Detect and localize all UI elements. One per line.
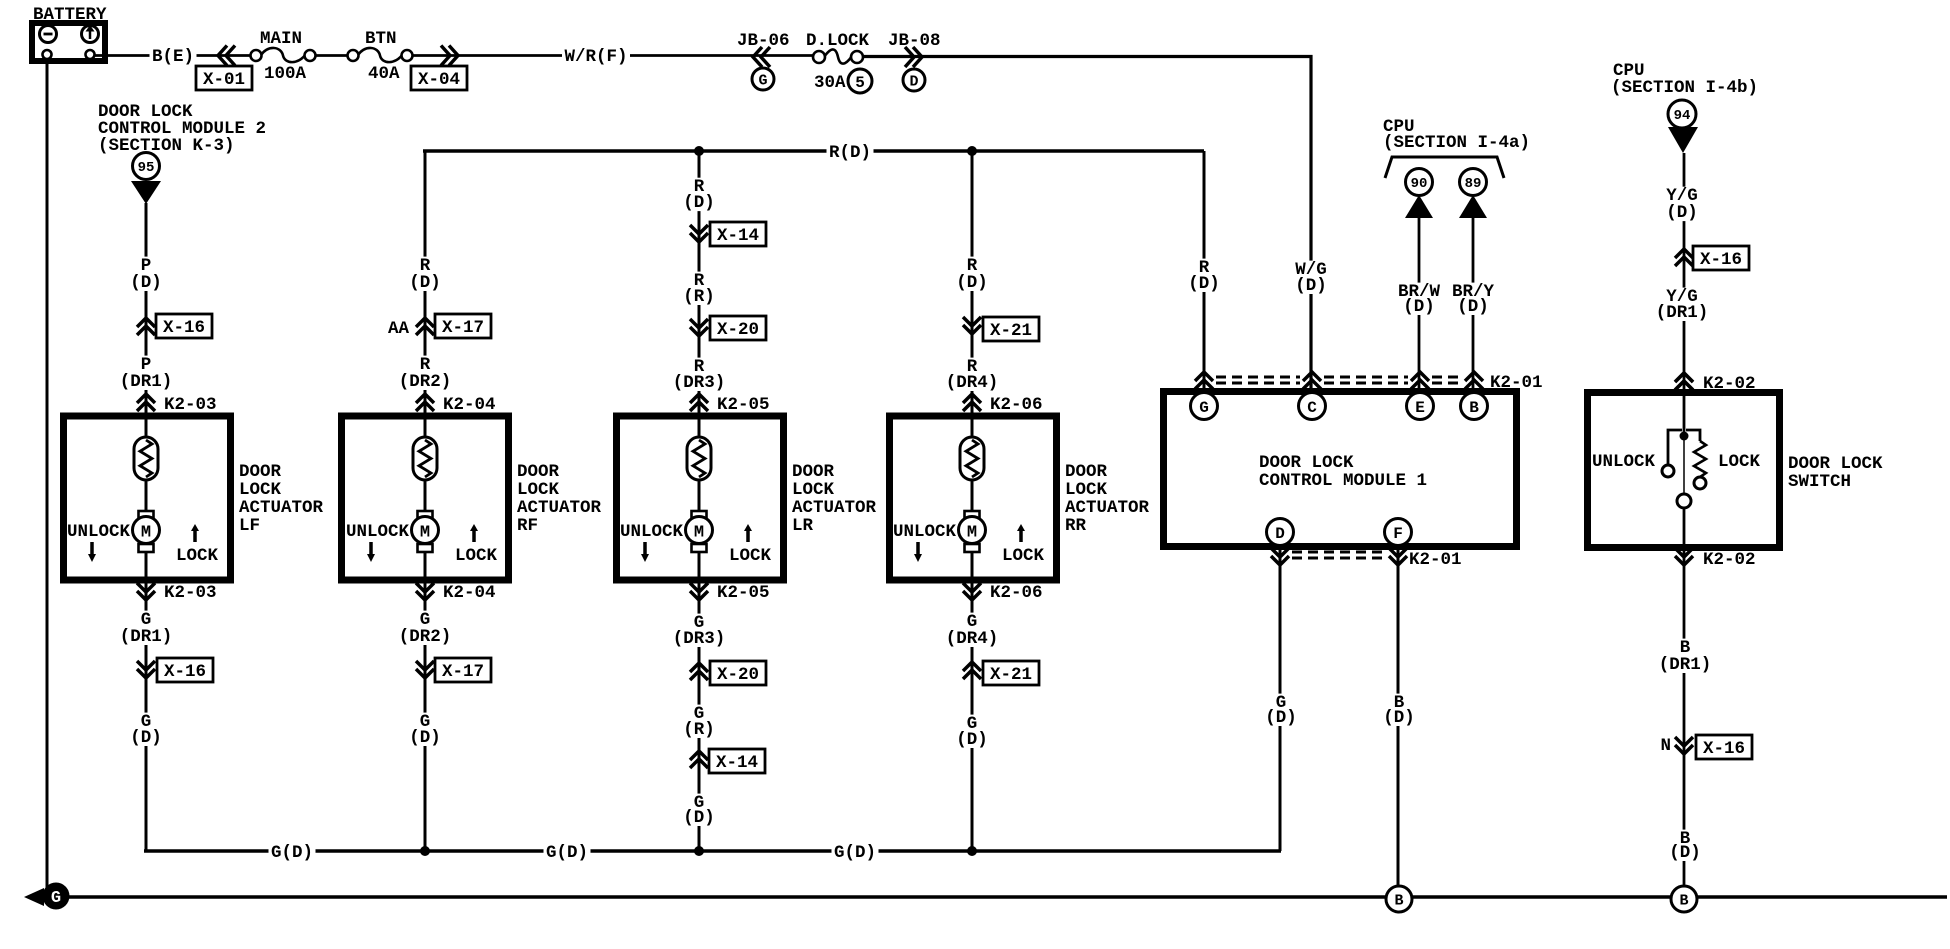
svg-text:K2-04: K2-04 <box>443 395 496 415</box>
svg-text:ACTUATOR: ACTUATOR <box>239 498 324 518</box>
svg-text:JB-06: JB-06 <box>737 31 790 51</box>
svg-text:G(D): G(D) <box>834 843 876 863</box>
svg-text:W/R(F): W/R(F) <box>564 47 627 67</box>
svg-text:(DR1): (DR1) <box>1659 655 1712 675</box>
svg-text:K2-03: K2-03 <box>164 583 217 603</box>
svg-text:K2-01: K2-01 <box>1490 373 1543 393</box>
svg-text:95: 95 <box>138 160 155 176</box>
svg-text:5: 5 <box>855 74 865 92</box>
svg-text:(DR1): (DR1) <box>120 627 173 647</box>
svg-text:DOOR: DOOR <box>239 462 282 482</box>
svg-text:X-16: X-16 <box>1700 250 1742 270</box>
svg-text:G: G <box>51 889 61 908</box>
svg-text:MAIN: MAIN <box>260 29 302 49</box>
svg-text:(DR1): (DR1) <box>1656 303 1709 323</box>
svg-text:K2-05: K2-05 <box>717 395 770 415</box>
svg-text:(SECTION I-4b): (SECTION I-4b) <box>1611 78 1758 98</box>
svg-text:(R): (R) <box>683 720 715 740</box>
svg-text:D: D <box>1275 525 1285 543</box>
svg-text:F: F <box>1393 525 1403 543</box>
svg-text:(D): (D) <box>1295 276 1327 296</box>
svg-text:(SECTION K-3): (SECTION K-3) <box>98 136 235 156</box>
svg-text:B: B <box>1394 892 1403 909</box>
svg-text:X-17: X-17 <box>442 318 484 338</box>
svg-text:94: 94 <box>1674 108 1691 124</box>
svg-text:X-21: X-21 <box>990 321 1032 341</box>
svg-text:(DR2): (DR2) <box>399 627 452 647</box>
svg-text:(D): (D) <box>1188 274 1220 294</box>
svg-text:X-01: X-01 <box>203 70 245 90</box>
svg-text:(D): (D) <box>130 273 162 293</box>
svg-text:LOCK: LOCK <box>517 480 560 500</box>
svg-text:X-14: X-14 <box>717 226 759 246</box>
svg-text:(D): (D) <box>1669 843 1701 863</box>
svg-text:UNLOCK: UNLOCK <box>1592 452 1656 472</box>
svg-text:B: B <box>1679 892 1688 909</box>
svg-text:(SECTION I-4a): (SECTION I-4a) <box>1383 133 1530 153</box>
svg-text:LOCK: LOCK <box>729 546 772 566</box>
svg-text:N: N <box>1660 736 1671 756</box>
svg-text:AA: AA <box>388 319 410 339</box>
svg-text:(DR4): (DR4) <box>946 373 999 393</box>
svg-text:LOCK: LOCK <box>1002 546 1045 566</box>
svg-text:K2-03: K2-03 <box>164 395 217 415</box>
svg-text:K2-01: K2-01 <box>1409 550 1462 570</box>
svg-text:(R): (R) <box>683 287 715 307</box>
svg-text:100A: 100A <box>264 64 307 84</box>
svg-text:M: M <box>967 524 977 543</box>
svg-text:LOCK: LOCK <box>1718 452 1761 472</box>
svg-text:RF: RF <box>517 516 538 536</box>
svg-text:(D): (D) <box>409 273 441 293</box>
svg-text:90: 90 <box>1411 176 1428 192</box>
svg-text:LF: LF <box>239 516 260 536</box>
svg-text:UNLOCK: UNLOCK <box>893 522 957 542</box>
svg-text:(D): (D) <box>683 193 715 213</box>
svg-text:DOOR LOCK: DOOR LOCK <box>1788 454 1883 474</box>
svg-text:K2-06: K2-06 <box>990 395 1043 415</box>
svg-text:UNLOCK: UNLOCK <box>346 522 410 542</box>
svg-text:LOCK: LOCK <box>1065 480 1108 500</box>
svg-text:RR: RR <box>1065 516 1087 536</box>
svg-text:(DR2): (DR2) <box>399 372 452 392</box>
svg-text:SWITCH: SWITCH <box>1788 472 1851 492</box>
svg-text:(D): (D) <box>956 730 988 750</box>
svg-text:UNLOCK: UNLOCK <box>67 522 131 542</box>
svg-text:X-14: X-14 <box>716 753 758 773</box>
svg-text:LOCK: LOCK <box>239 480 282 500</box>
svg-text:LOCK: LOCK <box>792 480 835 500</box>
svg-text:(D): (D) <box>1383 708 1415 728</box>
svg-text:(D): (D) <box>1265 708 1297 728</box>
svg-text:R(D): R(D) <box>829 143 871 163</box>
svg-text:(D): (D) <box>1457 297 1489 317</box>
svg-text:40A: 40A <box>368 64 400 84</box>
svg-text:DOOR: DOOR <box>1065 462 1108 482</box>
svg-text:X-16: X-16 <box>163 318 205 338</box>
svg-text:(D): (D) <box>1666 203 1698 223</box>
svg-text:B(E): B(E) <box>152 47 194 67</box>
svg-text:G: G <box>758 72 767 89</box>
svg-text:DOOR: DOOR <box>792 462 835 482</box>
svg-text:LOCK: LOCK <box>176 546 219 566</box>
svg-text:(DR1): (DR1) <box>120 372 173 392</box>
svg-text:(DR4): (DR4) <box>946 629 999 649</box>
svg-text:DOOR: DOOR <box>517 462 560 482</box>
svg-text:CONTROL MODULE 1: CONTROL MODULE 1 <box>1259 471 1427 491</box>
svg-text:K2-04: K2-04 <box>443 583 496 603</box>
svg-text:X-17: X-17 <box>442 662 484 682</box>
svg-text:(D): (D) <box>956 273 988 293</box>
svg-text:LOCK: LOCK <box>455 546 498 566</box>
svg-text:BTN: BTN <box>365 29 397 49</box>
svg-text:X-16: X-16 <box>164 662 206 682</box>
svg-text:X-16: X-16 <box>1703 739 1745 759</box>
svg-text:ACTUATOR: ACTUATOR <box>517 498 602 518</box>
svg-text:D: D <box>909 73 918 90</box>
svg-text:(D): (D) <box>1403 297 1435 317</box>
svg-text:X-21: X-21 <box>990 665 1032 685</box>
svg-text:ACTUATOR: ACTUATOR <box>792 498 877 518</box>
svg-text:G: G <box>1199 399 1209 417</box>
svg-text:(D): (D) <box>683 808 715 828</box>
svg-text:30A: 30A <box>814 73 846 93</box>
svg-text:X-20: X-20 <box>717 665 759 685</box>
svg-text:UNLOCK: UNLOCK <box>620 522 684 542</box>
svg-text:(DR3): (DR3) <box>673 629 726 649</box>
svg-text:K2-06: K2-06 <box>990 583 1043 603</box>
svg-text:K2-02: K2-02 <box>1703 550 1756 570</box>
svg-text:M: M <box>141 524 151 543</box>
svg-text:89: 89 <box>1465 176 1482 192</box>
svg-text:C: C <box>1307 399 1317 417</box>
svg-text:X-04: X-04 <box>418 70 460 90</box>
svg-text:G(D): G(D) <box>271 843 313 863</box>
svg-text:X-20: X-20 <box>717 320 759 340</box>
svg-text:M: M <box>694 524 704 543</box>
svg-text:E: E <box>1415 399 1425 417</box>
svg-text:D.LOCK: D.LOCK <box>806 31 870 51</box>
svg-text:(DR3): (DR3) <box>673 373 726 393</box>
svg-text:(D): (D) <box>130 728 162 748</box>
svg-text:B: B <box>1469 399 1479 417</box>
svg-text:M: M <box>420 524 430 543</box>
svg-text:DOOR LOCK: DOOR LOCK <box>1259 453 1354 473</box>
svg-text:(D): (D) <box>409 728 441 748</box>
svg-text:K2-05: K2-05 <box>717 583 770 603</box>
svg-text:LR: LR <box>792 516 814 536</box>
svg-text:ACTUATOR: ACTUATOR <box>1065 498 1150 518</box>
svg-text:G(D): G(D) <box>546 843 588 863</box>
